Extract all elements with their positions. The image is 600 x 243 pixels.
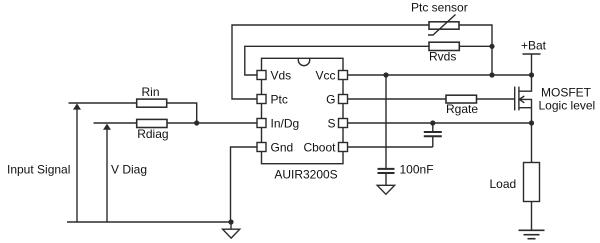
node junction Rin/Rdiag	[194, 120, 199, 125]
svg-text:Gnd: Gnd	[271, 140, 294, 154]
wire junction down to Vcc rail	[491, 46, 493, 75]
pin Cboot	[339, 143, 348, 152]
ground (100nF)	[377, 185, 394, 194]
wire thermistor to right vertical	[459, 25, 492, 46]
power +Bat supply	[523, 54, 541, 75]
wire S net: pin to source	[348, 122, 532, 124]
arrow V Diag	[103, 124, 111, 222]
node junction rail/gnd	[228, 219, 233, 224]
svg-text:Ptc sensor: Ptc sensor	[411, 1, 468, 15]
wire Vcc rail	[348, 74, 532, 76]
svg-text:Logic level: Logic level	[539, 99, 596, 113]
svg-text:MOSFET: MOSFET	[541, 86, 592, 100]
wire Cboot pin to cap	[348, 146, 433, 148]
transistor Q1 MOSFET logic level	[515, 75, 532, 123]
svg-text:Load: Load	[490, 177, 517, 191]
svg-text:Vds: Vds	[271, 68, 292, 82]
pin Vcc	[339, 71, 348, 80]
svg-text:100nF: 100nF	[400, 162, 434, 176]
wire Vds net: pin to Rvds loop	[245, 46, 429, 75]
capacitor Cboot bootstrap	[424, 123, 442, 147]
node junction Rvds/thermistor	[489, 44, 494, 49]
pin Vds	[257, 71, 266, 80]
node junction Vcc/Rvds vertical	[489, 72, 494, 77]
pin S	[339, 119, 348, 128]
svg-text:Rdiag: Rdiag	[137, 127, 168, 141]
svg-text:Rvds: Rvds	[429, 50, 456, 64]
resistor Rgate	[446, 95, 477, 103]
svg-text:G: G	[326, 92, 335, 106]
svg-text:In/Dg: In/Dg	[271, 116, 300, 130]
node junction S/cboot cap	[430, 120, 435, 125]
earth ground (load)	[519, 230, 545, 238]
pin Gnd	[257, 143, 266, 152]
resistor Rdiag	[94, 119, 197, 127]
svg-text:+Bat: +Bat	[521, 39, 547, 53]
wire to In/Dg pin	[197, 122, 257, 124]
pin Ptc	[257, 95, 266, 104]
node junction S/source	[529, 120, 534, 125]
ground (signal)	[223, 222, 240, 238]
svg-text:Cboot: Cboot	[303, 140, 336, 154]
resistor Load	[524, 123, 540, 230]
pin In/Dg	[257, 119, 266, 128]
svg-text:S: S	[327, 116, 335, 130]
wire Gnd net	[231, 147, 258, 222]
svg-text:Ptc: Ptc	[271, 92, 288, 106]
capacitor C1 100nF	[378, 169, 395, 185]
IC U1 AUIR3200S body	[262, 58, 344, 163]
arrow Input Signal	[73, 103, 81, 222]
svg-text:Vcc: Vcc	[315, 68, 335, 82]
wire Rvds to junction	[459, 45, 492, 47]
node junction Vcc/+Bat/drain	[529, 72, 534, 77]
svg-text:Rin: Rin	[142, 85, 160, 99]
wire G net: pin to Rgate	[348, 98, 447, 100]
resistor Rvds	[429, 42, 459, 50]
wire bottom rail	[67, 221, 231, 223]
pin G	[339, 95, 348, 104]
svg-text:Rgate: Rgate	[446, 102, 478, 116]
svg-text:AUIR3200S: AUIR3200S	[274, 167, 337, 181]
wire Rgate to gate	[477, 98, 515, 100]
svg-text:Input Signal: Input Signal	[7, 163, 70, 177]
thermistor Ptc sensor	[428, 15, 459, 36]
wire Vcc branch down to 100nF	[385, 75, 387, 169]
svg-text:V Diag: V Diag	[111, 163, 147, 177]
resistor Rin	[69, 99, 197, 123]
wire Ptc net: pin to thermistor loop	[232, 25, 429, 99]
node junction Vcc/cap branch	[383, 72, 388, 77]
